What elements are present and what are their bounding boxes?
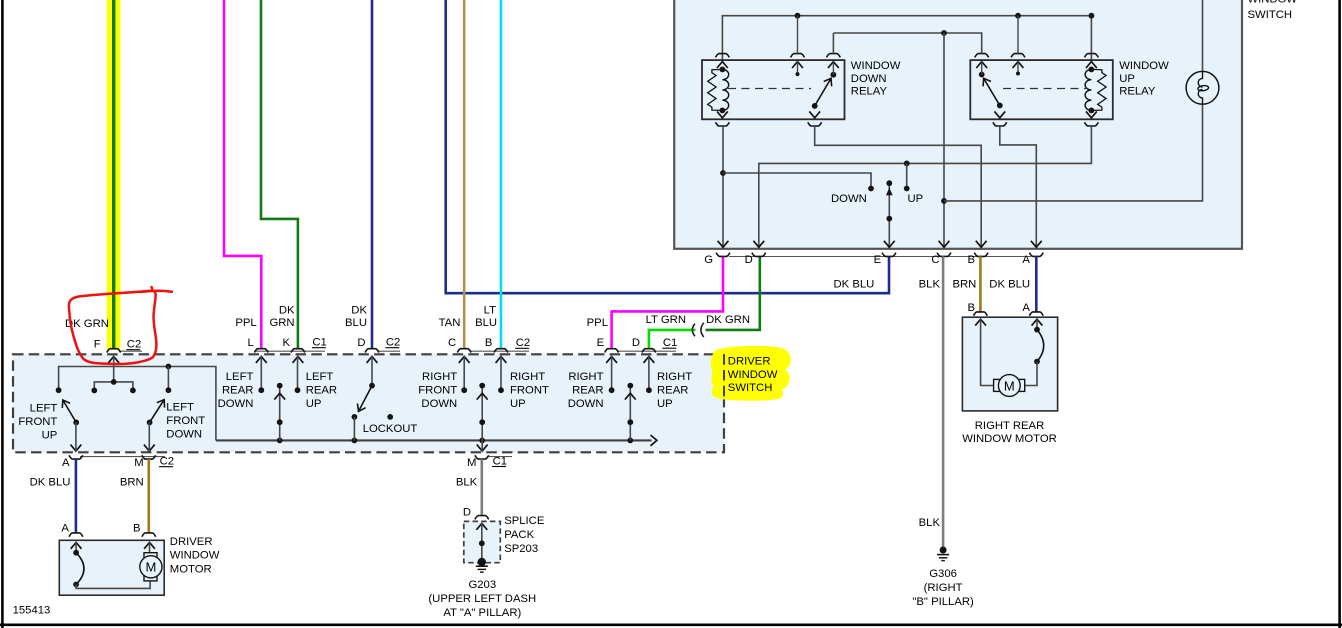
svg-text:M: M <box>1004 378 1015 393</box>
svg-text:C2: C2 <box>160 456 174 468</box>
svg-text:DOWN: DOWN <box>568 398 604 410</box>
svg-text:WINDOW: WINDOW <box>728 369 778 381</box>
svg-text:FRONT: FRONT <box>418 385 457 397</box>
svg-text:SP203: SP203 <box>504 543 538 555</box>
red pen circle around pin F <box>69 287 156 364</box>
svg-text:PPL: PPL <box>235 317 256 329</box>
svg-text:WINDOW: WINDOW <box>1248 0 1298 6</box>
lamp circuit wire <box>944 0 1203 201</box>
svg-text:BLK: BLK <box>919 517 941 529</box>
svg-text:RIGHT: RIGHT <box>510 371 545 383</box>
wire from top bus junction to pin C <box>833 30 981 248</box>
svg-text:RELAY: RELAY <box>851 86 888 98</box>
svg-text:LOCKOUT: LOCKOUT <box>363 423 418 435</box>
svg-text:BRN: BRN <box>120 477 144 489</box>
wire from down relay contact to pin B <box>815 126 982 248</box>
svg-text:D: D <box>463 507 471 519</box>
label SPLICE PACK SP203 <box>504 515 545 555</box>
wire BLK pin M to splice pack <box>480 459 483 515</box>
connector labels C2 C1 C2 C2 C1 <box>126 337 677 351</box>
driver motor internals <box>71 542 155 589</box>
down relay pin connectors <box>716 54 841 126</box>
wire PPL to pin L <box>224 0 261 349</box>
label RIGHT FRONT UP <box>510 371 549 410</box>
label WINDOW DOWN RELAY <box>851 60 901 98</box>
up relay middle pin vertical <box>1017 16 1019 54</box>
svg-text:B: B <box>967 254 975 266</box>
right rear window motor box <box>962 317 1057 411</box>
top bus wire in switch <box>722 16 1091 61</box>
svg-text:G: G <box>704 254 713 266</box>
svg-text:M: M <box>134 457 143 469</box>
svg-text:(UPPER LEFT DASH: (UPPER LEFT DASH <box>428 593 536 605</box>
driver window switch dashed box <box>13 354 724 452</box>
up relay switch blade <box>979 72 1003 109</box>
right front down contact <box>461 356 467 393</box>
pin letters F L K D C B E D <box>94 337 640 351</box>
svg-text:M: M <box>467 457 476 469</box>
switch box pin arrows at bottom edge <box>718 241 1042 247</box>
svg-text:REAR: REAR <box>222 385 253 397</box>
label G306 RIGHT B PILLAR <box>912 568 974 608</box>
svg-text:DK BLU: DK BLU <box>989 279 1030 291</box>
svg-text:DOWN: DOWN <box>218 398 254 410</box>
down relay contact pin stub <box>832 61 834 75</box>
wire PPL from switch pin G to pin E <box>612 256 723 348</box>
splice pack internals <box>476 523 487 561</box>
svg-text:B: B <box>967 302 975 314</box>
svg-text:SPLICE: SPLICE <box>504 515 545 527</box>
svg-text:REAR: REAR <box>306 385 337 397</box>
wire LT GRN to pin D C1 <box>649 330 696 349</box>
svg-text:RIGHT: RIGHT <box>657 371 692 383</box>
svg-text:WINDOW: WINDOW <box>851 60 901 72</box>
right rear motor connectors <box>974 312 1044 316</box>
junction dots on top bus <box>795 13 1095 19</box>
svg-text:G306: G306 <box>929 568 957 580</box>
svg-text:BLK: BLK <box>456 477 478 489</box>
left front up switch <box>59 398 79 452</box>
svg-text:D: D <box>357 337 365 349</box>
labels DK BLU BRN <box>30 477 144 489</box>
right rear motor internals <box>975 319 1044 386</box>
wire TAN to pin C <box>463 0 466 349</box>
svg-text:(RIGHT: (RIGHT <box>924 582 963 594</box>
wire BRN pin M to motor <box>148 459 151 533</box>
lockout switch <box>352 356 394 441</box>
wire BRN pin B to motor <box>979 256 982 312</box>
splice pack connector <box>475 516 489 520</box>
svg-text:REAR: REAR <box>657 385 688 397</box>
svg-text:RIGHT REAR: RIGHT REAR <box>975 420 1044 432</box>
down relay coil w/ resistor <box>708 67 729 114</box>
svg-text:DOWN: DOWN <box>831 193 867 205</box>
svg-text:"B" PILLAR): "B" PILLAR) <box>912 596 974 608</box>
wire UP contact branch <box>904 161 910 192</box>
svg-text:F: F <box>94 339 101 351</box>
svg-text:E: E <box>597 337 605 349</box>
svg-text:DK: DK <box>279 305 295 317</box>
wire pin B up to relay <box>980 144 982 146</box>
svg-text:UP: UP <box>306 398 322 410</box>
up relay contact pin stub <box>981 61 983 75</box>
svg-text:UP: UP <box>657 398 673 410</box>
svg-text:DRIVER: DRIVER <box>728 356 771 368</box>
dashed edge through highlight <box>723 354 725 398</box>
svg-text:UP: UP <box>1119 73 1135 85</box>
svg-text:A: A <box>62 457 70 469</box>
upper contact rail wire <box>56 364 216 441</box>
label WINDOW UP RELAY <box>1119 60 1169 98</box>
wire from up relay common to pin A <box>1000 126 1037 248</box>
svg-text:D: D <box>632 337 640 349</box>
svg-text:C1: C1 <box>493 455 507 467</box>
window switch box (top right) <box>674 0 1242 249</box>
svg-text:AT "A" PILLAR): AT "A" PILLAR) <box>443 607 521 619</box>
svg-text:C: C <box>931 254 939 266</box>
svg-text:C1: C1 <box>663 337 677 349</box>
svg-text:DOWN: DOWN <box>421 398 457 410</box>
down relay middle pin stub <box>796 61 800 76</box>
wire DOWN contact branch <box>723 173 874 191</box>
svg-text:K: K <box>283 337 291 349</box>
svg-text:MOTOR: MOTOR <box>170 563 212 575</box>
wire down-relay coil feed down to pin G <box>720 126 726 248</box>
svg-text:C2: C2 <box>386 337 400 349</box>
svg-text:DK GRN: DK GRN <box>706 314 750 326</box>
right rear motor M symbol <box>994 375 1025 397</box>
up relay middle pin stub <box>1016 61 1020 76</box>
down relay pin arrows at box edges <box>717 62 839 118</box>
wire DK BLU vertical from top to horizontal run <box>446 0 889 293</box>
pin G vertical from relay <box>797 16 799 54</box>
svg-text:PPL: PPL <box>587 317 608 329</box>
svg-text:PACK: PACK <box>504 529 534 541</box>
up relay pin arrows at box edges <box>976 62 1097 118</box>
driver motor M symbol <box>140 553 162 581</box>
wire DK BLU pin A to motor <box>1035 256 1038 312</box>
down relay switch blade <box>812 72 837 109</box>
svg-text:C: C <box>448 337 456 349</box>
driver window motor box <box>59 540 164 595</box>
svg-text:FRONT: FRONT <box>510 385 549 397</box>
svg-text:BRN: BRN <box>952 279 976 291</box>
svg-text:UP: UP <box>510 398 526 410</box>
svg-text:REAR: REAR <box>572 385 603 397</box>
svg-text:B: B <box>133 523 141 535</box>
svg-text:A: A <box>1022 254 1030 266</box>
wire DK GRN from switch pin D <box>706 256 760 330</box>
svg-text:FRONT: FRONT <box>18 416 57 428</box>
svg-text:E: E <box>874 254 882 266</box>
svg-text:D: D <box>745 254 753 266</box>
up relay dashed actuator link <box>1003 88 1086 90</box>
svg-text:LT: LT <box>484 305 496 317</box>
right rear up contact <box>646 356 652 393</box>
svg-text:WINDOW: WINDOW <box>1119 60 1169 72</box>
svg-text:C2: C2 <box>516 337 530 349</box>
svg-text:WINDOW: WINDOW <box>170 550 220 562</box>
driver window switch dashed border <box>13 354 724 452</box>
inline splice symbol LT GRN/DK GRN <box>692 324 695 337</box>
svg-text:BLU: BLU <box>345 317 367 329</box>
label LEFT REAR UP <box>306 371 337 410</box>
svg-text:LEFT: LEFT <box>30 402 58 414</box>
svg-text:RIGHT: RIGHT <box>422 371 457 383</box>
svg-text:C1: C1 <box>312 337 326 349</box>
svg-text:RELAY: RELAY <box>1119 86 1156 98</box>
ground G203 <box>476 558 488 572</box>
svg-text:BLU: BLU <box>475 317 497 329</box>
wire DK GRN w/ yellow highlight to pin F <box>107 0 121 350</box>
svg-text:BLK: BLK <box>919 279 941 291</box>
window down relay U-down box <box>702 60 845 119</box>
up relay pin connectors <box>975 54 1099 126</box>
wire LT BLU to pin B <box>500 0 503 349</box>
label LEFT FRONT DOWN <box>166 401 205 440</box>
svg-text:SWITCH: SWITCH <box>728 382 773 394</box>
wire color labels below switch <box>833 279 1030 291</box>
wire DK BLU pin A to motor <box>75 459 78 533</box>
pin arrows inside dashed box top <box>108 357 654 363</box>
window up relay box <box>970 60 1113 119</box>
down relay dashed actuator link <box>728 88 811 90</box>
svg-text:DRIVER: DRIVER <box>170 536 213 548</box>
right front up contact <box>498 356 504 393</box>
svg-text:WINDOW MOTOR: WINDOW MOTOR <box>962 433 1057 445</box>
svg-text:DK BLU: DK BLU <box>30 477 71 489</box>
svg-text:DOWN: DOWN <box>166 428 202 440</box>
driver switch bottom connectors A M C2 <box>62 455 174 469</box>
label G203 UPPER LEFT DASH <box>428 579 536 619</box>
svg-text:TAN: TAN <box>439 317 461 329</box>
label LEFT FRONT UP <box>18 402 57 441</box>
svg-text:LT GRN: LT GRN <box>646 314 686 326</box>
svg-text:RIGHT: RIGHT <box>568 371 603 383</box>
svg-text:LEFT: LEFT <box>166 401 194 413</box>
pin letters G D E C B A <box>704 254 1030 266</box>
svg-text:155413: 155413 <box>13 605 51 617</box>
illumination lamp <box>1186 71 1219 104</box>
motor connector letters A B <box>61 523 140 535</box>
right rear pole <box>625 383 636 441</box>
label RIGHT FRONT DOWN <box>418 371 457 410</box>
svg-text:SWITCH: SWITCH <box>1248 9 1293 21</box>
labels above driver switch pins <box>65 305 750 331</box>
svg-text:UP: UP <box>42 429 58 441</box>
svg-text:DK BLU: DK BLU <box>833 279 874 291</box>
label RIGHT REAR DOWN <box>568 371 604 410</box>
left rear up contact <box>295 356 301 393</box>
left front switch feed from pin F <box>91 356 135 393</box>
wire DK BLU to pin D C2 <box>371 0 374 349</box>
switch box bottom connectors G D E C B A <box>716 253 1043 257</box>
svg-text:DK: DK <box>351 305 367 317</box>
bottom connector M C1 <box>467 455 512 469</box>
label DRIVER WINDOW SWITCH <box>728 356 778 395</box>
svg-text:G203: G203 <box>468 579 496 591</box>
svg-text:A: A <box>61 523 69 535</box>
yellow highlight DRIVER WINDOW SWITCH <box>711 346 791 401</box>
wire DK GRN to pin K <box>261 0 298 349</box>
right rear down contact <box>609 356 615 393</box>
right front pole to pin M <box>477 383 488 452</box>
left rear pole <box>274 383 285 441</box>
svg-text:A: A <box>1022 302 1030 314</box>
label LEFT REAR DOWN <box>218 371 254 410</box>
svg-text:LEFT: LEFT <box>306 371 334 383</box>
svg-text:M: M <box>145 560 156 575</box>
label DRIVER WINDOW MOTOR <box>170 536 220 575</box>
pin arrows inside dashed box bottom <box>71 445 488 451</box>
wire BLK from pin C to G306 <box>942 256 945 547</box>
up relay coil w/ resistor <box>1085 67 1106 114</box>
svg-text:DOWN: DOWN <box>851 73 887 85</box>
label RIGHT REAR UP <box>657 371 692 410</box>
svg-text:L: L <box>248 337 254 349</box>
svg-text:UP: UP <box>908 193 924 205</box>
svg-text:LEFT: LEFT <box>226 371 254 383</box>
label WINDOW SWITCH <box>1248 0 1298 21</box>
driver motor connectors <box>69 533 156 537</box>
splice pack dashed box <box>464 521 501 562</box>
svg-text:B: B <box>485 337 493 349</box>
ground G306 <box>937 547 949 561</box>
label RIGHT REAR WINDOW MOTOR <box>962 420 1057 445</box>
left rear down contact <box>258 356 264 393</box>
motor connector letters B A <box>967 302 1030 314</box>
svg-text:FRONT: FRONT <box>166 415 205 427</box>
driver switch top connectors <box>107 349 676 353</box>
rocker common pole to pin E <box>886 180 893 248</box>
wire up relay coil to pin D horizontal <box>759 126 1092 248</box>
bus wire in driver switch <box>216 435 657 446</box>
svg-text:C2: C2 <box>127 339 141 351</box>
left front down switch <box>147 367 172 452</box>
svg-text:GRN: GRN <box>269 317 294 329</box>
